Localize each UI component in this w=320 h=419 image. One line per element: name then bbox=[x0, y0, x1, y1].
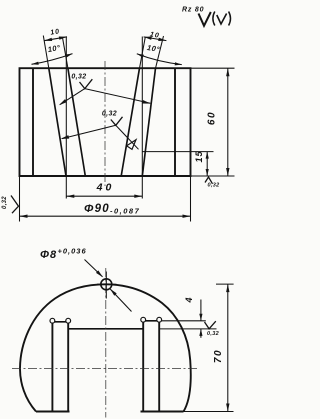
svg-text:60: 60 bbox=[207, 111, 218, 125]
svg-text:Φ8: Φ8 bbox=[40, 249, 57, 261]
svg-text:0,32: 0,32 bbox=[207, 331, 219, 337]
svg-text:0,32: 0,32 bbox=[2, 196, 8, 209]
svg-text:0,32: 0,32 bbox=[208, 183, 220, 189]
svg-text:4: 4 bbox=[184, 297, 194, 303]
svg-text:15: 15 bbox=[194, 150, 204, 162]
svg-text:0,32: 0,32 bbox=[71, 74, 86, 81]
svg-text:70: 70 bbox=[213, 349, 224, 363]
svg-text:40: 40 bbox=[96, 182, 115, 194]
svg-text:-0,087: -0,087 bbox=[110, 207, 140, 216]
svg-text:Φ90: Φ90 bbox=[84, 203, 110, 215]
svg-text:+0,036: +0,036 bbox=[58, 247, 87, 256]
svg-text:0,32: 0,32 bbox=[102, 111, 117, 118]
svg-text:Rz 80: Rz 80 bbox=[182, 7, 204, 14]
